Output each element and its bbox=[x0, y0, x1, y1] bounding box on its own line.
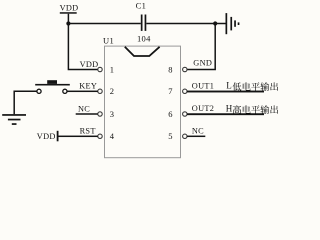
svg-text:3: 3 bbox=[110, 109, 114, 119]
svg-text:VDD: VDD bbox=[37, 132, 56, 141]
svg-text:OUT2: OUT2 bbox=[192, 104, 214, 113]
pin 6 circle bbox=[183, 112, 187, 116]
svg-text:104: 104 bbox=[137, 34, 151, 44]
capacitor C1 bbox=[136, 0, 151, 43]
svg-text:VDD: VDD bbox=[60, 3, 79, 12]
IC U1 body bbox=[103, 36, 181, 158]
wire top rail to C1 left plate bbox=[68, 23, 140, 25]
pin 1 circle bbox=[98, 67, 102, 71]
svg-text:7: 7 bbox=[168, 86, 172, 96]
ground (earth, bottom left) bbox=[2, 114, 26, 125]
wire VDD vertical to pin 1 bbox=[68, 14, 97, 70]
power symbol VDD top-left bbox=[60, 3, 79, 13]
pin 2 circle bbox=[98, 89, 102, 93]
pin 4 circle bbox=[98, 134, 102, 138]
label H high-level output bbox=[226, 104, 278, 114]
wire NC stub (pin 5) bbox=[187, 136, 205, 138]
wire OUT1 output net bbox=[187, 91, 264, 93]
ground (signal ground, top right) bbox=[226, 13, 240, 34]
svg-text:NC: NC bbox=[192, 127, 204, 136]
wire NC stub (pin 3) bbox=[76, 113, 98, 115]
wire button left terminal to earth bbox=[14, 91, 37, 114]
svg-text:6: 6 bbox=[168, 109, 172, 119]
svg-text:GND: GND bbox=[193, 59, 212, 68]
wire OUT2 output net bbox=[187, 113, 264, 115]
node junction GND rail bbox=[213, 21, 217, 25]
svg-text:VDD: VDD bbox=[80, 60, 99, 69]
svg-text:H: H bbox=[226, 104, 233, 114]
label L low-level output bbox=[226, 81, 278, 91]
IC notch bbox=[125, 47, 160, 56]
pin 7 circle bbox=[183, 89, 187, 93]
svg-text:4: 4 bbox=[110, 131, 115, 141]
svg-text:NC: NC bbox=[78, 104, 90, 113]
svg-text:U1: U1 bbox=[103, 36, 114, 46]
svg-text:RST: RST bbox=[80, 127, 96, 136]
svg-text:C1: C1 bbox=[136, 0, 147, 10]
pin 8 circle bbox=[183, 67, 187, 71]
svg-text:2: 2 bbox=[110, 86, 114, 96]
svg-text:8: 8 bbox=[168, 64, 172, 74]
node junction VDD rail / C1 bbox=[66, 21, 70, 25]
wire RST to VDD bbox=[59, 136, 98, 138]
wire GND rail down to pin 8 bbox=[187, 24, 215, 70]
pin 3 circle bbox=[98, 112, 102, 116]
svg-text:OUT1: OUT1 bbox=[192, 82, 214, 91]
switch S1 (push button) bbox=[35, 80, 70, 93]
svg-text:L: L bbox=[226, 81, 232, 91]
pin 5 circle bbox=[183, 134, 187, 138]
svg-text:5: 5 bbox=[168, 131, 172, 141]
wire C1 right plate to ground bbox=[146, 23, 225, 25]
svg-text:KEY: KEY bbox=[79, 82, 97, 91]
power symbol VDD bottom-left bbox=[37, 131, 59, 142]
wire button right terminal to KEY pin 2 bbox=[67, 91, 98, 93]
svg-text:1: 1 bbox=[110, 64, 114, 74]
